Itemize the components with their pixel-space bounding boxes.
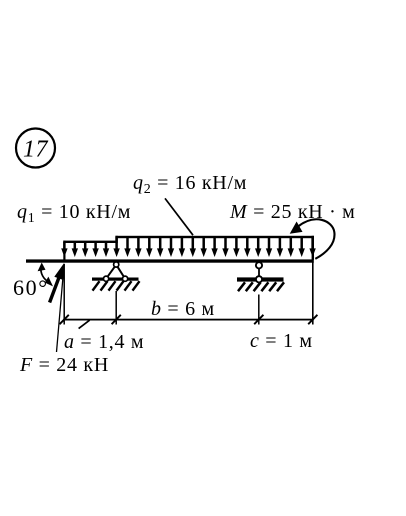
svg-text:q1​ = 10 кН/м: q1​ = 10 кН/м [17,201,131,226]
svg-text:c = 1 м: c = 1 м [250,330,313,352]
svg-text:F = 24 кН: F = 24 кН [19,354,109,376]
svg-text:q2​ = 16 кН/м: q2​ = 16 кН/м [133,172,247,197]
svg-text:60°: 60° [13,275,49,300]
svg-text:M = 25 кН · м: M = 25 кН · м [229,201,356,223]
svg-text:b = 6 м: b = 6 м [151,298,215,320]
svg-text:a = 1,4 м: a = 1,4 м [64,331,144,353]
svg-text:17: 17 [23,137,49,163]
